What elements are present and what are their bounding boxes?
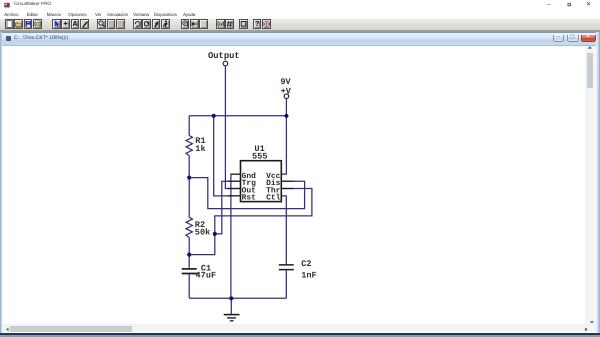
svg-text:1k: 1k xyxy=(195,144,205,154)
svg-text:C2: C2 xyxy=(301,259,311,269)
svg-text:Rst: Rst xyxy=(242,194,256,203)
svg-text:Output: Output xyxy=(208,51,240,61)
svg-text:555: 555 xyxy=(252,152,267,162)
svg-text:47uF: 47uF xyxy=(196,270,217,280)
svg-text:+V: +V xyxy=(281,87,292,97)
svg-text:Ctl: Ctl xyxy=(266,194,280,203)
svg-text:50k: 50k xyxy=(195,227,210,237)
svg-text:1nF: 1nF xyxy=(301,270,316,280)
svg-text:9V: 9V xyxy=(280,77,291,87)
